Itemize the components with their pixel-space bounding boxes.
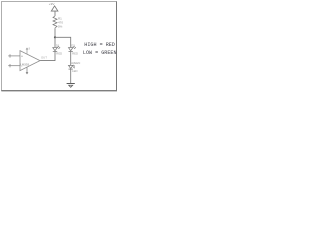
svg-text:LOW = GREEN: LOW = GREEN [83,50,117,56]
svg-text:D2: D2 [71,43,75,47]
svg-text:OUT: OUT [41,55,47,59]
svg-text:D1: D1 [56,43,60,47]
wire lower input [8,65,20,67]
svg-text:RED: RED [72,52,78,56]
svg-text:RED: RED [56,52,62,56]
wire junction to right column [55,37,71,47]
svg-text:5%: 5% [58,25,63,29]
svg-text:+9V: +9V [49,2,56,6]
wire LED D1 to op-amp output [40,51,55,60]
wire power to resistor [54,11,56,16]
wire upper input [8,55,20,57]
op-amp U1 LM393 [20,51,40,71]
wire D3 to ground [70,69,72,83]
svg-text:LED: LED [72,69,77,73]
pin 4 V- stub with down arrow [26,67,28,74]
ground [67,84,75,88]
border frame (decorative) [2,2,117,91]
wire resistor to junction to LED D1 [54,29,56,47]
svg-text:-: - [21,64,22,68]
svg-text:GREEN: GREEN [70,61,80,65]
node junction dot [54,36,56,38]
wire D2 to D3 [70,51,72,65]
svg-text:+: + [21,54,23,58]
terminal tick upper input [9,54,11,57]
resistor R1 [53,16,57,29]
pin 8 V+ stub with up arrow [26,48,28,54]
power symbol +9V [51,6,58,11]
terminal tick lower input [9,64,11,67]
LED D1 (left, on output) [53,46,60,52]
LED D3 (right bottom) [69,65,75,69]
LED D2 (right top) [69,46,76,52]
svg-text:HIGH = RED: HIGH = RED [84,42,115,48]
